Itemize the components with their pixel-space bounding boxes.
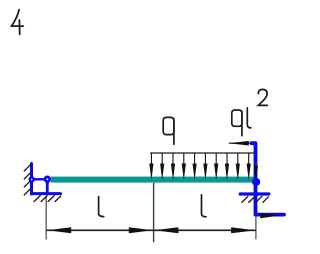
dimension arrow mid-left (points right) xyxy=(129,227,153,233)
left support ground hatching xyxy=(34,196,61,202)
left support ground line xyxy=(33,192,61,195)
extension line right (under right support) xyxy=(255,196,257,239)
label q (distributed load) xyxy=(163,117,174,144)
label l (right span) xyxy=(202,195,207,217)
left support wall hatching xyxy=(24,164,31,195)
distributed load end arrow over moment bar xyxy=(254,166,258,181)
dimension arrow far left (points left) xyxy=(47,227,71,233)
dimension arrow mid-right (points left) xyxy=(154,227,178,233)
left support pin A (on wall) xyxy=(29,176,35,182)
dimension line xyxy=(46,229,256,231)
beam xyxy=(51,177,256,183)
moment couple: top arm arrowhead (points left) xyxy=(229,141,249,146)
right support pin circle xyxy=(252,178,260,186)
left support wall line xyxy=(30,164,33,195)
right support ground hatching xyxy=(242,196,269,202)
distributed load arrows xyxy=(149,153,251,180)
moment couple: blue vertical bar with elbows xyxy=(252,143,285,214)
left support pin B (beam end) xyxy=(44,176,51,183)
extension line left (under left support) xyxy=(45,196,47,240)
left support link bar xyxy=(32,178,48,180)
moment couple: bottom arm arrowhead (points right) xyxy=(260,213,282,218)
right support ground line xyxy=(240,192,269,195)
distributed load top line xyxy=(150,152,256,154)
label 4 (problem number) xyxy=(11,10,23,35)
label ql^2 (moment) xyxy=(232,89,267,135)
dimension arrow far right (points right) xyxy=(231,227,255,233)
moment couple: top arm line xyxy=(229,142,252,144)
left support post under pin xyxy=(46,179,49,193)
label l (left span) xyxy=(99,197,104,217)
right support bar-ground junction blob xyxy=(253,191,258,196)
extension line middle (beam midspan) xyxy=(153,183,155,243)
